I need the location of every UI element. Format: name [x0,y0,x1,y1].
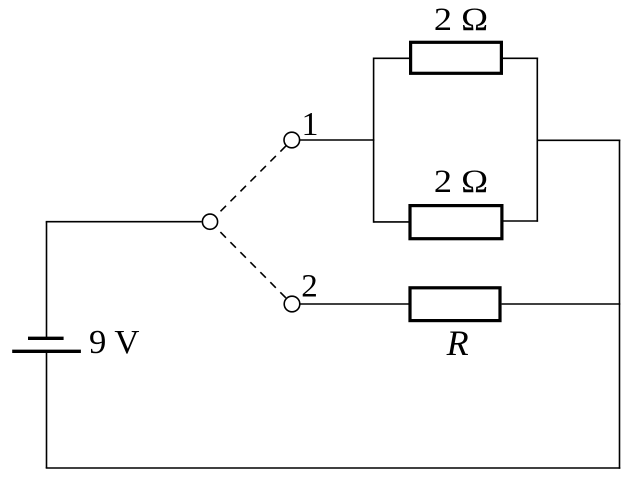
wire: bottom branch right lead [504,220,539,222]
svg-text:2 Ω: 2 Ω [434,1,488,38]
wire: parallel network output to right rail [537,139,620,141]
resistor R body [410,288,500,321]
switch pole contact (common node) [202,214,217,229]
wire: parallel network left bus bar [373,58,375,223]
switch contact 2 [284,296,300,312]
wire: battery negative down the left rail [46,353,48,468]
battery B1 bottom (long) plate [12,350,81,353]
battery B1 top (short) plate [28,337,64,340]
svg-text:2: 2 [301,269,318,305]
switch contact 1 [284,132,300,148]
wire: bottom rail [46,467,621,469]
wire: from battery top to switch pole [46,221,202,223]
svg-text:R: R [446,323,469,363]
wire: top branch left lead [374,57,410,59]
wire: resistor R to right rail [502,303,621,305]
resistor 2Ω (top branch) body [411,42,502,73]
wire: top branch right lead [502,57,538,59]
switch throw (dashed) toward contact 2 [220,232,286,298]
resistor 2Ω (bottom branch) body [410,206,502,239]
wire: parallel network right bus bar [536,58,538,222]
wire: contact 2 to resistor R [300,303,409,305]
switch throw (dashed) toward contact 1 [221,146,286,211]
wire: battery positive to top-left corner (left rail upper) [46,222,48,337]
wire: contact 1 to parallel network input [300,139,375,141]
svg-text:2 Ω: 2 Ω [434,163,488,200]
svg-text:9 V: 9 V [89,323,140,361]
wire: bottom branch left lead [374,221,410,223]
wire: right rail up to output node [619,140,621,469]
svg-text:1: 1 [302,106,319,143]
